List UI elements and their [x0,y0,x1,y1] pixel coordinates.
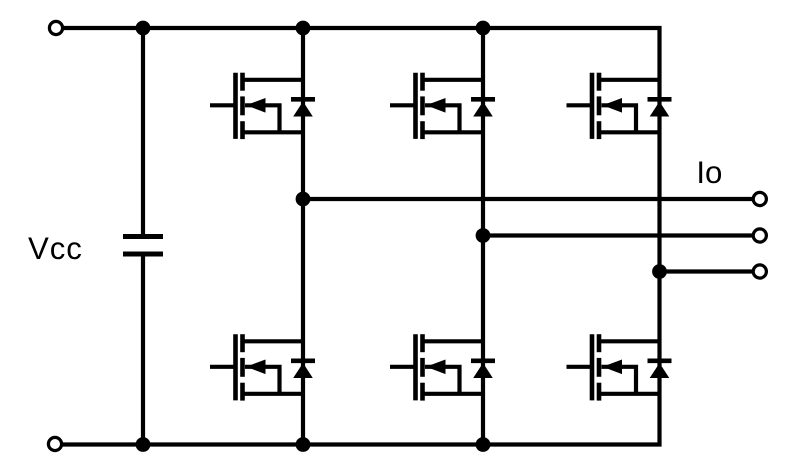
wire phase leg 3 bus [657,26,661,447]
body arrow Q6 [603,360,623,375]
channel body segment Q4 [420,358,425,377]
channel source segment Q3 [420,121,425,139]
channel drain segment Q4 [420,334,425,352]
source wire Q3 [423,130,484,134]
body diode D2 anode triangle [293,363,313,378]
body diode D4 cathode bar [471,358,495,363]
junction node leg2 phase output [476,228,491,243]
channel source segment Q5 [597,121,602,139]
source wire Q2 [243,392,304,396]
transistor Q2 (low-side leg1 N-channel MOSFET) [210,334,315,400]
terminal positive input [49,21,62,34]
channel body segment Q3 [420,96,425,115]
channel drain segment Q5 [597,73,602,91]
gate plate Q2 [233,334,238,400]
channel body segment Q6 [597,358,602,377]
wire capacitor branch lower [141,256,145,447]
junction node bottom rail / leg2 [476,437,491,452]
channel source segment Q6 [597,383,602,401]
terminal negative input [48,437,61,450]
capacitor C1 top plate [123,234,163,239]
gate lead wire Q2 [210,365,236,369]
drain wire Q5 [599,78,660,82]
wire phase leg 1 bus [301,26,305,447]
body arrow Q3 [426,98,446,113]
gate lead wire Q3 [390,103,416,107]
source wire Q1 [243,130,304,134]
wire phase output U [303,197,754,201]
body arrow Q2 [246,360,266,375]
terminal output U [753,192,766,205]
body diode D3 cathode bar [471,97,495,102]
channel body segment Q2 [240,358,245,377]
wire top positive rail [63,26,662,30]
source wire Q4 [423,392,484,396]
gate lead wire Q5 [567,103,593,107]
drain wire Q1 [243,78,304,82]
source wire Q5 [599,130,660,134]
body wire Q1 [245,105,280,132]
channel source segment Q2 [240,383,245,401]
drain wire Q2 [243,339,304,343]
body arrow Q5 [603,98,623,113]
channel body segment Q1 [240,96,245,115]
body wire Q5 [602,105,637,132]
source wire Q6 [599,392,660,396]
channel drain segment Q3 [420,73,425,91]
body diode D5 anode triangle [650,102,670,117]
junction node top rail / leg2 [476,21,491,36]
body diode D4 anode triangle [473,363,493,378]
channel source segment Q4 [420,383,425,401]
gate lead wire Q1 [210,103,236,107]
transistor Q1 (high-side leg1 N-channel MOSFET) [210,73,315,139]
junction node top rail / capacitor [136,21,151,36]
drain wire Q3 [423,78,484,82]
body diode D1 cathode bar [291,97,315,102]
junction node bottom rail / leg1 [296,437,311,452]
transistor Q3 (high-side leg2 N-channel MOSFET) [390,73,495,139]
wire capacitor branch upper [141,26,145,234]
svg-text:Vcc: Vcc [28,231,83,266]
gate plate Q3 [413,73,418,139]
junction node top rail / leg1 [296,21,311,36]
terminal output W [753,265,766,278]
transistor Q5 (high-side leg3 N-channel MOSFET) [567,73,672,139]
channel drain segment Q6 [597,334,602,352]
wire bottom negative rail [62,442,662,446]
gate lead wire Q4 [390,365,416,369]
wire phase leg 2 bus [481,26,485,447]
terminal output V [753,229,766,242]
body arrow Q1 [246,98,266,113]
body diode D2 cathode bar [291,358,315,363]
channel drain segment Q1 [240,73,245,91]
transistor Q4 (low-side leg2 N-channel MOSFET) [390,334,495,400]
channel body segment Q5 [597,96,602,115]
body diode D6 cathode bar [648,358,672,363]
body wire Q4 [425,367,460,394]
junction node bottom rail / capacitor [136,437,151,452]
drain wire Q6 [599,339,660,343]
wire phase output V [483,233,754,237]
body diode D6 anode triangle [650,363,670,378]
gate plate Q4 [413,334,418,400]
junction node leg1 phase output [296,192,311,207]
body diode D3 anode triangle [473,102,493,117]
channel source segment Q1 [240,121,245,139]
body diode D1 anode triangle [293,102,313,117]
channel drain segment Q2 [240,334,245,352]
gate plate Q6 [590,334,595,400]
body wire Q2 [245,367,280,394]
drain wire Q4 [423,339,484,343]
wire phase output W [660,269,754,273]
gate plate Q5 [590,73,595,139]
gate lead wire Q6 [567,365,593,369]
capacitor C1 bottom plate [123,252,163,257]
junction node leg3 phase output [652,264,667,279]
body diode D5 cathode bar [648,97,672,102]
body wire Q3 [425,105,460,132]
svg-text:Io: Io [696,155,722,190]
body wire Q6 [602,367,637,394]
transistor Q6 (low-side leg3 N-channel MOSFET) [567,334,672,400]
gate plate Q1 [233,73,238,139]
body arrow Q4 [426,360,446,375]
